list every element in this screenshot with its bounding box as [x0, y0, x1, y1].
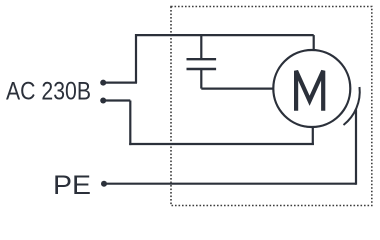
enclosure dotted border: [171, 7, 372, 206]
wire capacitor bottom lead: [200, 70, 202, 89]
node PE terminal: [101, 181, 107, 187]
node upper AC terminal: [100, 80, 106, 86]
wire motor top vertical: [313, 35, 315, 51]
svg-text:AC 230B: AC 230B: [6, 77, 91, 105]
wire capacitor to motor: [201, 87, 274, 89]
motor letter M: [296, 71, 323, 111]
wire lower terminal stub: [103, 99, 130, 101]
svg-text:PE: PE: [53, 170, 91, 200]
node lower AC terminal: [100, 98, 106, 104]
capacitor C plates: [187, 59, 217, 69]
wire upper-left vertical: [135, 34, 137, 83]
wire top horizontal L1: [136, 34, 314, 36]
motor M1 circle: [273, 50, 350, 127]
wire PE horizontal: [104, 183, 356, 185]
wire bottom horizontal: [129, 143, 314, 145]
wire PE vertical to frame: [355, 110, 357, 185]
wire motor bottom vertical: [312, 127, 314, 145]
wire capacitor top lead: [200, 35, 202, 58]
motor frame arc (PE bond): [344, 87, 360, 125]
wire lower-left vertical: [129, 101, 131, 146]
wire upper terminal stub: [103, 81, 137, 83]
